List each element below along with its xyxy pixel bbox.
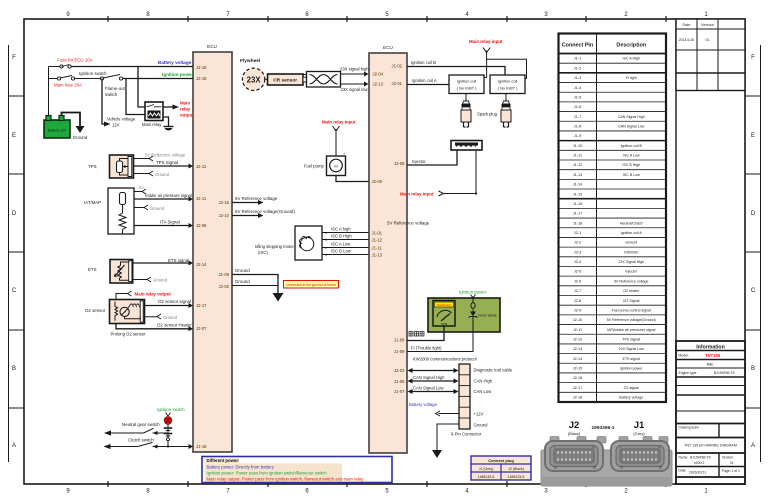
svg-text:Prolong O2 sensor: Prolong O2 sensor: [111, 332, 147, 337]
ITA signal wire: [134, 223, 193, 228]
svg-text:J2-04: J2-04: [373, 72, 384, 77]
pin J1-09: [219, 272, 230, 277]
svg-text:Ignition power: Ignition power: [620, 367, 643, 371]
table row J2-12: [573, 337, 641, 341]
CAN signal low wire: [408, 389, 459, 394]
svg-text:Battery voltage: Battery voltage: [158, 60, 192, 65]
pin J1-07: [394, 389, 405, 394]
page cell: [722, 469, 740, 473]
svg-text:5V Reference voltage(Ground): 5V Reference voltage(Ground): [235, 209, 295, 214]
svg-text:J1-16: J1-16: [573, 202, 583, 206]
svg-text:TPS Signal: TPS Signal: [156, 160, 178, 165]
svg-text:ISC A high: ISC A high: [331, 227, 351, 232]
svg-text:J2-01: J2-01: [392, 81, 403, 86]
intake air pressure signal label: [145, 193, 192, 198]
svg-text:Version:: Version:: [722, 456, 734, 460]
svg-text:J1-09: J1-09: [219, 272, 230, 277]
tachometer meter: [433, 301, 455, 327]
23X signal low label: [341, 87, 369, 92]
svg-text:( No IGBT ): ( No IGBT ): [457, 86, 478, 91]
svg-text:F: F: [751, 55, 755, 61]
svg-text:J1-01: J1-01: [372, 231, 383, 236]
svg-text:5V Reference voltage: 5V Reference voltage: [145, 153, 186, 158]
ETS signal label: [168, 258, 189, 263]
svg-text:CAN Signal High: CAN Signal High: [618, 115, 645, 119]
svg-text:J2-5: J2-5: [574, 270, 581, 274]
grid ref letter C right: [751, 288, 756, 294]
svg-text:J2-16: J2-16: [573, 376, 583, 380]
table row J2-4: [574, 260, 644, 264]
legend box: [202, 457, 392, 483]
connect plug part number J2: [508, 475, 525, 479]
svg-text:J1-18: J1-18: [196, 444, 207, 449]
svg-text:J2-9: J2-9: [574, 308, 581, 312]
svg-text:Neutral/Clutch: Neutral/Clutch: [620, 221, 643, 225]
table row J2-13: [573, 347, 644, 351]
fuel pump control wire: [336, 176, 369, 182]
information header: [676, 345, 745, 351]
ISC A high wire: [322, 227, 369, 236]
table row J2-3: [574, 250, 638, 254]
CAN high label: [474, 379, 493, 384]
ETS ground stub: [132, 277, 168, 283]
spark plug B: [501, 101, 511, 127]
grid ref letter D right: [751, 211, 756, 217]
svg-text:TNT135: TNT135: [705, 353, 721, 358]
svg-text:J1-02: J1-02: [392, 64, 403, 69]
svg-text:ISC B Low: ISC B Low: [331, 249, 352, 254]
table row J1-10: [573, 144, 643, 148]
table row J2-1: [574, 231, 643, 235]
grid ref number 5 bottom: [385, 489, 389, 495]
connect plug part number J1: [478, 475, 495, 479]
pin J2-03: [394, 368, 405, 373]
wire battery bus to main relay: [138, 67, 145, 108]
wire coil B to spark plug B: [505, 94, 507, 102]
svg-text:d: d: [325, 253, 327, 257]
svg-text:CAN Signal Low: CAN Signal Low: [618, 125, 645, 129]
svg-text:Connect plug: Connect plug: [488, 458, 514, 463]
CR sensor: [268, 74, 307, 85]
CAN low label: [474, 389, 493, 394]
table row J1-1: [574, 57, 640, 61]
svg-text:J1-8: J1-8: [574, 125, 581, 129]
svg-text:Neutral gear switch: Neutral gear switch: [122, 422, 160, 427]
svg-text:TNT 135 EFI WIRING DIAGRAM: TNT 135 EFI WIRING DIAGRAM: [684, 444, 737, 448]
table row J2-2: [574, 241, 637, 245]
revision date value: [679, 38, 695, 42]
svg-text:J2-02: J2-02: [219, 284, 230, 289]
svg-text:Fuse for ECU 10A: Fuse for ECU 10A: [57, 58, 93, 63]
svg-text:ISC B Low: ISC B Low: [623, 173, 640, 177]
connect plug J2 black cell: [508, 467, 524, 471]
svg-text:Ground: Ground: [235, 268, 250, 273]
ground label J2-02: [235, 279, 250, 284]
svg-text:J2-11: J2-11: [573, 328, 582, 332]
ignition switch symbol S1: [100, 75, 122, 81]
clutch switch label: [128, 438, 154, 443]
svg-text:J2-15: J2-15: [573, 367, 583, 371]
svg-text:Ground: Ground: [163, 315, 178, 320]
svg-text:23X Signal High: 23X Signal High: [618, 260, 644, 264]
pin J1-06: [394, 379, 405, 384]
wire relay output arrow: [163, 105, 179, 110]
pin J2-09: [372, 179, 383, 184]
flywheel 23X wheel: [242, 68, 264, 90]
svg-text:Main: Main: [180, 101, 190, 106]
pin J1-11: [372, 246, 383, 251]
svg-text:Ignition switch: Ignition switch: [157, 407, 185, 412]
connector photo J2 label: [568, 420, 581, 436]
ground note box (highlighted): [284, 281, 339, 289]
KW2000 protocol label: [413, 357, 477, 362]
grid ref letter F right: [751, 55, 755, 61]
spare row lines: [676, 386, 745, 424]
svg-text:Version: Version: [701, 23, 714, 27]
tachometer label: [409, 332, 424, 337]
svg-text:CAN Signal Low: CAN Signal Low: [413, 386, 444, 391]
table row J2-6: [574, 279, 649, 283]
ground wire J1-09: [232, 275, 278, 294]
grid tick side: [8, 329, 760, 331]
battery voltage label (6-pin): [409, 402, 438, 407]
svg-text:(ISC): (ISC): [258, 250, 268, 255]
svg-text:Battery power: Directly from: Battery power: Directly from battery: [207, 464, 275, 469]
ECU label (right block): [383, 45, 393, 50]
svg-text:Main relay input: Main relay input: [322, 120, 356, 125]
neutral gear switch + frame arrow: [104, 428, 168, 435]
svg-text:( No IGBT ): ( No IGBT ): [498, 86, 519, 91]
table row J1-15: [573, 192, 583, 196]
svg-text:J2-6: J2-6: [574, 279, 581, 283]
svg-text:J2-05: J2-05: [394, 161, 405, 166]
svg-text:ITA Signal: ITA Signal: [160, 220, 180, 225]
svg-text:J2-1: J2-1: [574, 231, 581, 235]
TPS 5V reference stub: [134, 156, 154, 161]
svg-text:ISC B High: ISC B High: [622, 163, 640, 167]
svg-text:J2-2: J2-2: [574, 241, 581, 245]
svg-text:J2-8: J2-8: [574, 299, 581, 303]
connector J2 pin numbers: [554, 446, 596, 470]
grid ref letter D left: [12, 211, 17, 217]
date cell: [676, 469, 745, 478]
svg-text:01: 01: [706, 38, 710, 42]
svg-text:IAT Signal: IAT Signal: [623, 299, 639, 303]
svg-text:J2-03: J2-03: [394, 368, 405, 373]
svg-text:CAN High: CAN High: [474, 379, 493, 384]
svg-text:Drawing team: Drawing team: [679, 426, 700, 430]
svg-text:O2 sensor: O2 sensor: [85, 308, 106, 313]
svg-text:Ignition coil A: Ignition coil A: [621, 231, 643, 235]
svg-text:Name:: Name:: [679, 456, 689, 460]
svg-text:Battery voltage: Battery voltage: [619, 396, 643, 400]
svg-text:IAP(Intake air pressure) signa: IAP(Intake air pressure) signal: [607, 328, 656, 332]
svg-text:Ground: Ground: [150, 206, 165, 211]
svg-text:Main relay: Main relay: [142, 122, 162, 127]
svg-text:J1-08: J1-08: [394, 338, 405, 343]
pin J2-13: [373, 82, 384, 87]
table row J2-18: [573, 396, 643, 400]
svg-text:output: output: [180, 113, 194, 118]
idling stepping motor ISC: [295, 226, 322, 260]
drawing team cell: [676, 424, 745, 438]
prolong O2 sensor label: [111, 332, 147, 337]
svg-text:Clutch switch: Clutch switch: [128, 438, 154, 443]
grid ref number 9 top: [66, 12, 70, 18]
svg-text:J2-16: J2-16: [219, 200, 230, 205]
svg-text:Vehicle voltage: Vehicle voltage: [107, 117, 136, 122]
svg-text:J1-07: J1-07: [394, 389, 405, 394]
svg-text:Main fuse 20A: Main fuse 20A: [54, 83, 82, 88]
ECU housing base: [541, 450, 672, 486]
pin J2-01: [392, 81, 403, 86]
main relay input antenna (coils): [483, 48, 490, 78]
vehicle voltage label: [107, 117, 136, 128]
svg-text:Main relay input: Main relay input: [400, 192, 434, 197]
svg-text:J1-17: J1-17: [573, 212, 583, 216]
svg-text:switch: switch: [105, 92, 118, 97]
svg-text:J1-15: J1-15: [573, 192, 583, 196]
svg-text:ISC A Low: ISC A Low: [623, 154, 640, 158]
table row J2-10: [573, 318, 656, 322]
svg-text:5V Reference voltage: 5V Reference voltage: [387, 221, 430, 226]
flywheel label: [240, 58, 260, 64]
FI trouble light wire to J1-09: [407, 332, 473, 352]
ignition coil B label: [411, 60, 436, 65]
svg-text:relay: relay: [180, 107, 191, 112]
table row J1-4: [574, 86, 581, 90]
fuel pump label: [304, 164, 324, 169]
svg-text:O2 signal: O2 signal: [624, 386, 639, 390]
svg-text:C: C: [12, 288, 17, 294]
svg-text:1488133-5: 1488133-5: [508, 475, 525, 479]
legend main relay output: [207, 477, 365, 482]
grid ref letter B right: [751, 366, 755, 372]
svg-text:Ignition coil B: Ignition coil B: [411, 60, 436, 65]
ISC A low wire: [322, 242, 369, 251]
legend ignition power: [207, 471, 328, 476]
TPS ground label: [155, 172, 170, 177]
table row J2-16: [573, 376, 583, 380]
TPS sensor: [110, 155, 134, 178]
grid ref letter F left: [12, 55, 16, 61]
connector socket J1: [611, 441, 669, 471]
svg-text:J1-5: J1-5: [574, 95, 581, 99]
drawing title cell: [676, 444, 745, 454]
svg-text:J2-13: J2-13: [573, 347, 583, 351]
svg-text:Fuel pump: Fuel pump: [304, 164, 324, 169]
5V reference voltage output wire: [232, 200, 264, 205]
table row J1-2: [574, 66, 581, 70]
pin J2-04: [373, 72, 384, 77]
svg-text:RPM: RPM: [441, 322, 448, 326]
grid ref number 7 top: [226, 12, 230, 18]
svg-text:Information: Information: [696, 345, 725, 351]
svg-text:J2-12: J2-12: [573, 337, 583, 341]
svg-text:BJ154FMI-T6: BJ154FMI-T6: [690, 456, 711, 460]
fuel pump M1: [327, 152, 346, 176]
TPS signal label: [156, 160, 178, 165]
table row J2-15: [573, 367, 643, 371]
svg-text:Flywheel: Flywheel: [240, 58, 260, 64]
svg-text:CAN Signal High: CAN Signal High: [413, 375, 445, 380]
table row J1-18: [573, 221, 643, 225]
svg-text:J1-9: J1-9: [574, 134, 581, 138]
svg-text:J2-17: J2-17: [573, 386, 583, 390]
connect plug header: [488, 458, 514, 463]
svg-text:ISC A High: ISC A High: [623, 57, 640, 61]
O2 sensor: [110, 300, 145, 324]
ground wire (6-pin): [437, 424, 459, 450]
svg-text:F: F: [12, 55, 16, 61]
idling stepping motor label: [255, 244, 294, 255]
svg-text:J1-7: J1-7: [574, 115, 581, 119]
table row J1-13: [573, 173, 640, 177]
svg-text:FI (Trouble light): FI (Trouble light): [411, 346, 442, 351]
grid ref number 1 bottom: [704, 489, 708, 495]
svg-text:10: 10: [554, 466, 558, 470]
svg-text:O2 sensor Heater: O2 sensor Heater: [157, 323, 192, 328]
version cell: [722, 456, 734, 466]
ISC B low wire: [322, 249, 369, 258]
ignition coil A label: [412, 78, 437, 83]
svg-text:A: A: [751, 443, 755, 449]
ECU label (left block): [207, 44, 217, 49]
5V reference ground output wire: [232, 213, 264, 218]
svg-text:J1-13: J1-13: [573, 173, 583, 177]
clutch switch + frame arrow: [104, 443, 189, 450]
svg-text:J2: J2: [569, 420, 580, 431]
svg-text:Ignition power: Power pass: Ignition power: Power pass from ignition…: [207, 471, 328, 476]
pin J2-12: [196, 164, 207, 169]
svg-text:J2-13: J2-13: [373, 82, 384, 87]
table row J1-16: [573, 202, 583, 206]
pin J1-13: [372, 253, 383, 258]
svg-text:J2-14: J2-14: [573, 357, 583, 361]
indicator lamp (red): [164, 417, 172, 425]
svg-text:Ground: Ground: [474, 423, 489, 428]
grid ref number 1 top: [704, 12, 708, 18]
svg-text:J2-15: J2-15: [196, 76, 207, 81]
svg-text:Bike: Bike: [707, 363, 714, 367]
table row J2-9: [574, 308, 651, 312]
TPS signal wire: [134, 164, 194, 169]
svg-text:+: +: [343, 152, 345, 156]
svg-text:Page: 1 of 1: Page: 1 of 1: [722, 469, 740, 473]
svg-text:Spark plug: Spark plug: [477, 112, 498, 117]
grid ref number 2 top: [624, 12, 628, 18]
svg-text:M: M: [334, 163, 337, 168]
connect pin table: [559, 34, 667, 403]
ignition power label (dashboard): [459, 290, 487, 295]
grid ref letter A right: [751, 443, 755, 449]
svg-text:J2-14: J2-14: [196, 262, 207, 267]
grid ref number 7 bottom: [226, 489, 230, 495]
intake air pressure signal wire: [134, 197, 193, 202]
grid tick: [426, 16, 428, 487]
svg-text:J1-09: J1-09: [394, 349, 405, 354]
svg-text:J2-11: J2-11: [196, 196, 207, 201]
svg-text:(Black): (Black): [568, 431, 581, 436]
pin J1-12: [372, 238, 383, 243]
svg-text:Injector: Injector: [412, 159, 426, 164]
svg-text:1993366-1: 1993366-1: [592, 425, 615, 431]
svg-text:J2-7: J2-7: [574, 289, 581, 293]
wire coil A to spark plug A: [465, 94, 467, 102]
svg-text:Intake air pressure signal: Intake air pressure signal: [145, 193, 192, 198]
O2 sensor label: [85, 308, 106, 313]
IAT/MAP sensor: [108, 188, 134, 234]
pin J2-10: [219, 213, 230, 218]
grid ref number 9 bottom: [66, 489, 70, 495]
CAN signal high label: [413, 375, 445, 380]
outer border right line: [760, 45, 762, 462]
table row J2-11: [573, 328, 656, 332]
5V reference voltage label (right ECU): [387, 221, 430, 226]
svg-text:J2-12: J2-12: [196, 164, 207, 169]
svg-text:J1-10: J1-10: [573, 144, 583, 148]
injector drive wire: [407, 150, 457, 165]
pin J1-18: [196, 444, 207, 449]
grid tick: [665, 16, 667, 487]
model row: [676, 353, 745, 360]
TPS 5V reference label: [145, 153, 186, 158]
battery voltage label: [158, 60, 192, 65]
ground label (battery): [73, 135, 88, 140]
ignition coil A box: [449, 75, 484, 94]
pin J2-11: [196, 196, 207, 201]
battery B1 12V: [44, 116, 70, 139]
svg-text:01: 01: [730, 461, 734, 465]
O2 main relay output label: [135, 292, 172, 297]
diagnostic K-line wire: [408, 368, 459, 373]
svg-text:J1 (Grey): J1 (Grey): [479, 467, 494, 471]
svg-text:J2-18: J2-18: [573, 396, 583, 400]
TPS label: [88, 164, 97, 169]
svg-text:J2-09: J2-09: [372, 179, 383, 184]
revision version value: [706, 38, 710, 42]
svg-text:6-Pin Connector: 6-Pin Connector: [451, 432, 482, 437]
dashboard panel box: [428, 298, 500, 332]
svg-text:5V Reference voltage: 5V Reference voltage: [235, 196, 278, 201]
connect plug J1 grey cell: [479, 467, 494, 471]
wire relay to chassis ground: [163, 117, 169, 126]
ignition coil B wire: [407, 67, 505, 76]
grid ref letter C left: [12, 288, 17, 294]
wire vehicle voltage branch: [102, 79, 104, 125]
pin J1-01: [372, 231, 383, 236]
svg-text:O2 sensor signal: O2 sensor signal: [158, 299, 191, 304]
svg-text:Battery voltage: Battery voltage: [409, 402, 438, 407]
main relay input antenna (fuel pump): [333, 126, 340, 156]
grid ref number 3 top: [544, 12, 548, 18]
svg-text:J2 (Black): J2 (Black): [508, 467, 524, 471]
svg-text:E: E: [751, 133, 755, 139]
svg-text:J2-17: J2-17: [196, 303, 207, 308]
information section box: [676, 341, 745, 484]
svg-text:A: A: [12, 443, 16, 449]
main relay input arrow (injector): [439, 191, 444, 196]
legend battery power: [207, 464, 275, 469]
tachometer wire to J1-08: [407, 326, 444, 341]
svg-text:Ground: Ground: [73, 135, 88, 140]
pin J1-09 right: [394, 349, 405, 354]
pin J2-16: [219, 200, 230, 205]
svg-text:Ignition coil B: Ignition coil B: [621, 144, 643, 148]
svg-text:Ground: Ground: [235, 279, 250, 284]
svg-text:J1-13: J1-13: [372, 253, 383, 258]
ground arrow (battery): [76, 126, 85, 133]
